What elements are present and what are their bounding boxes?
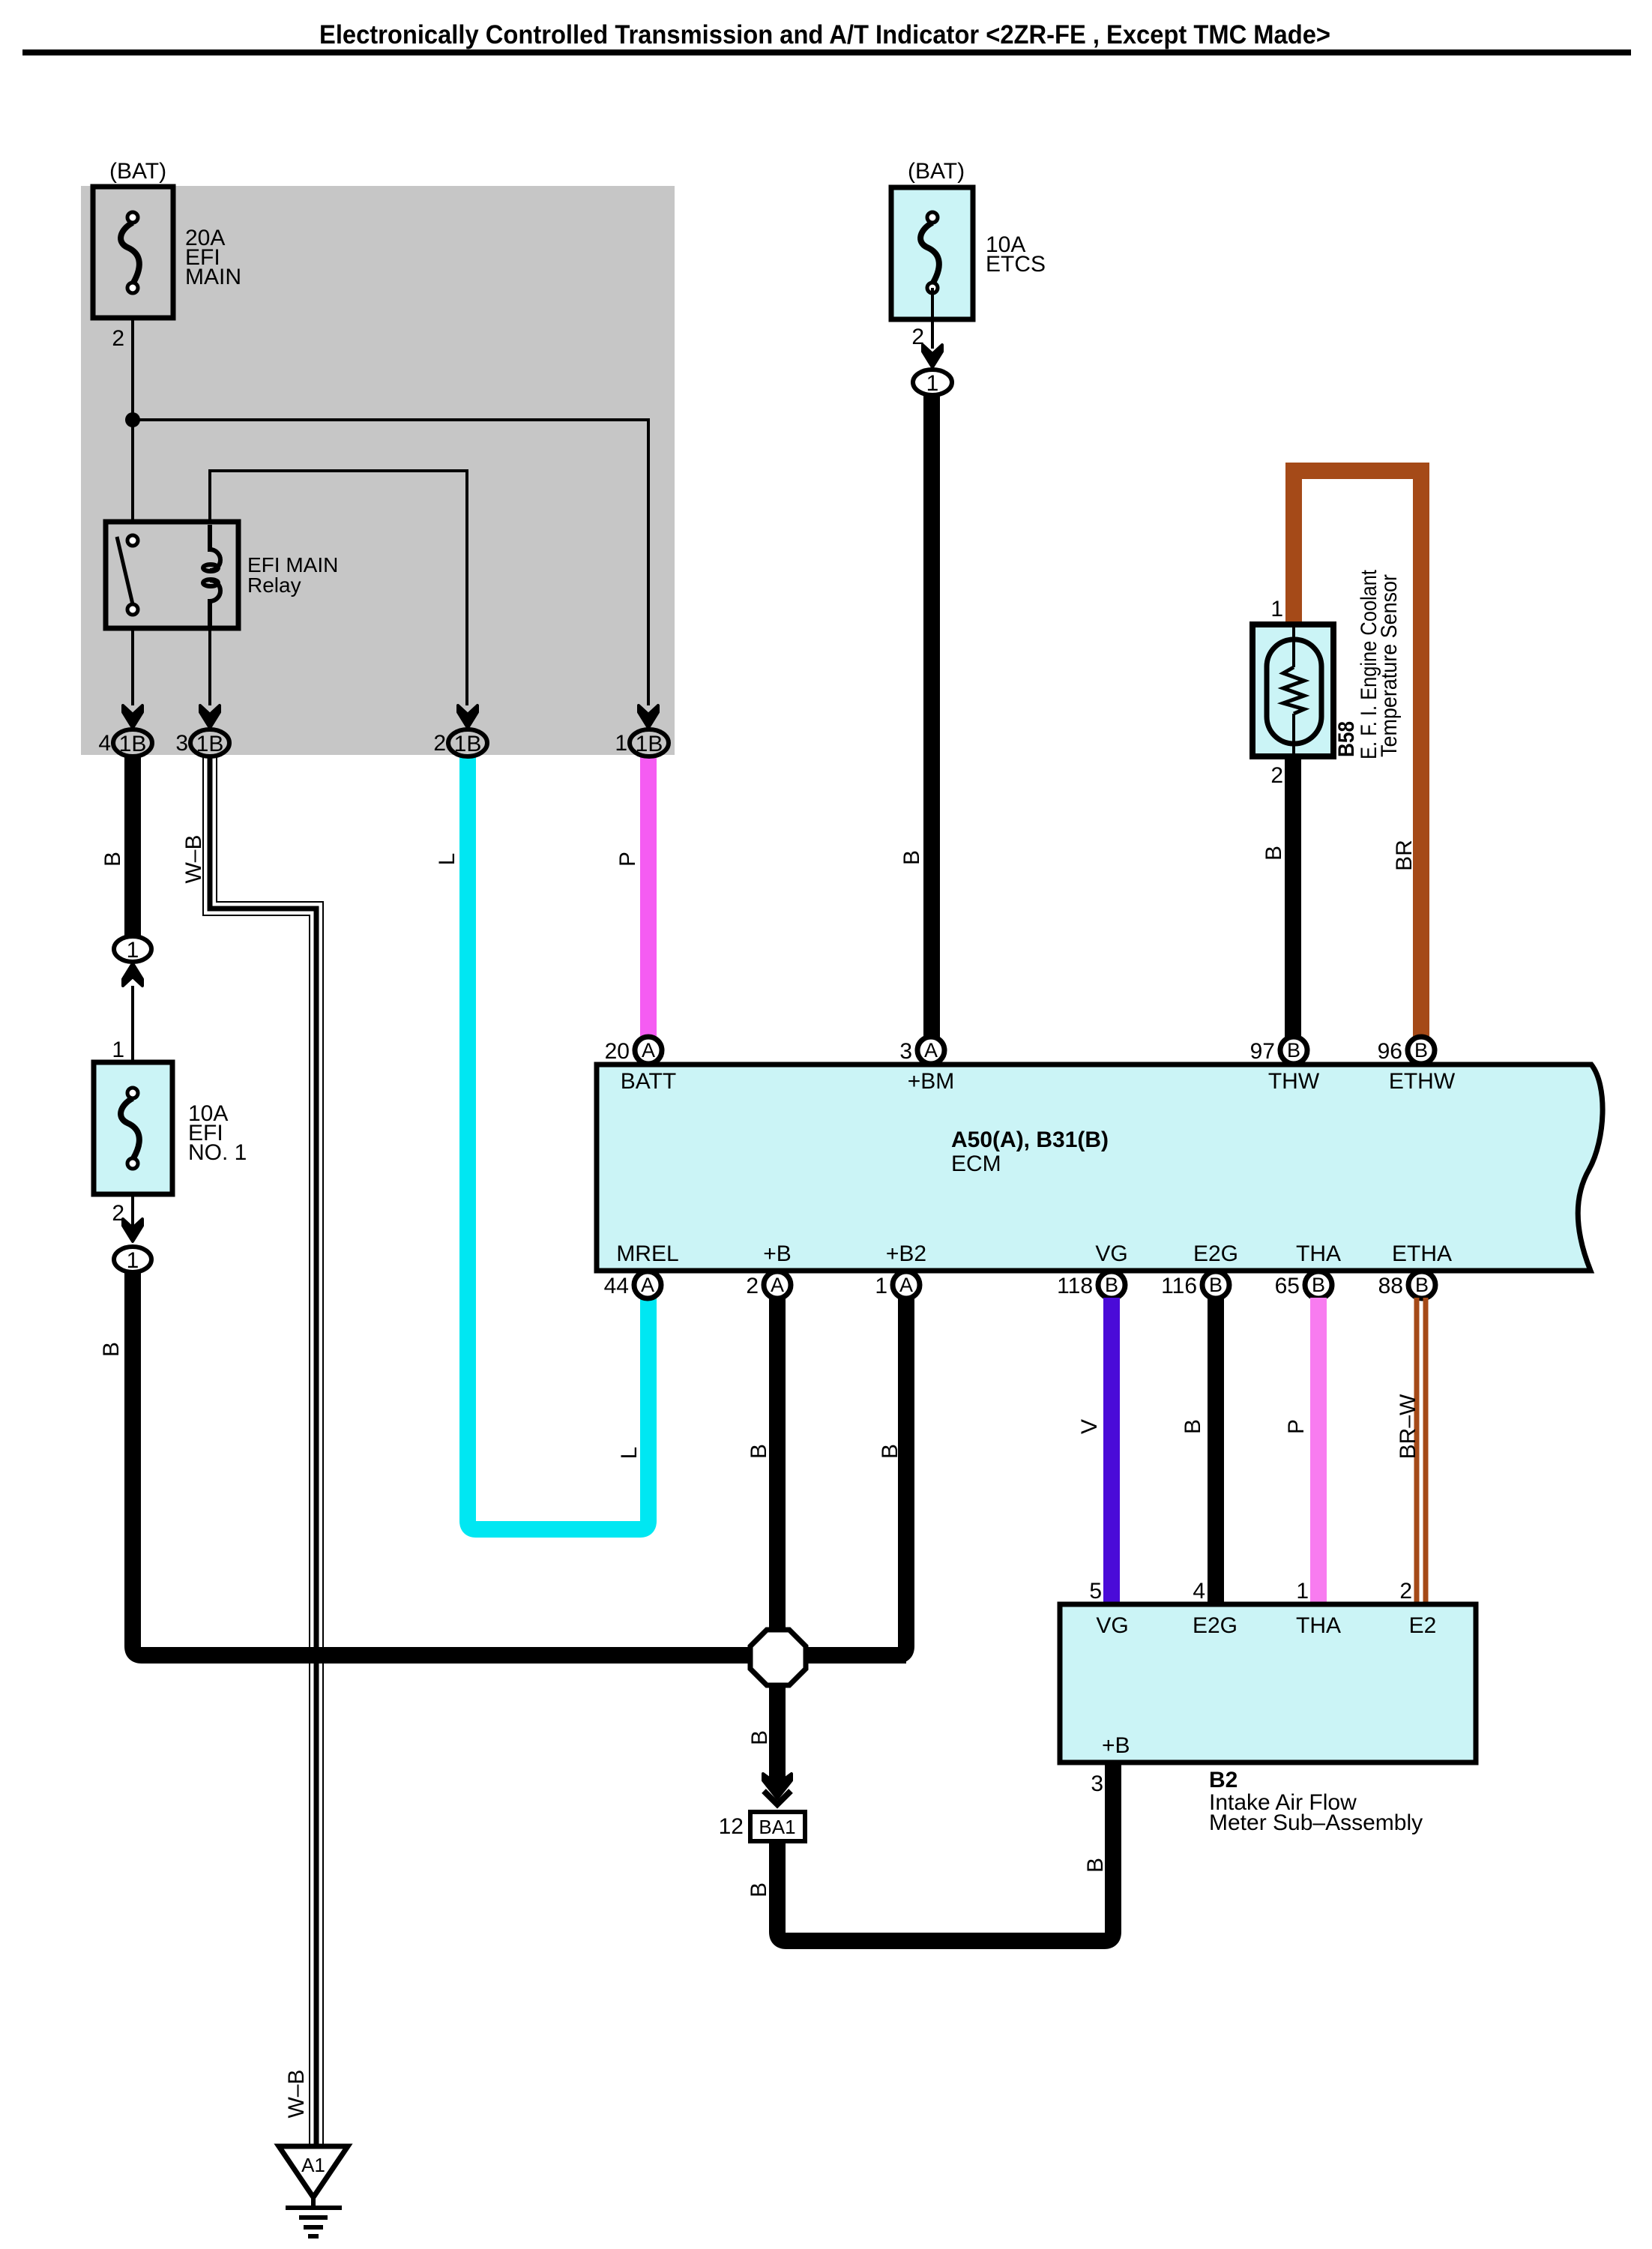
svg-text:V: V [1077,1419,1102,1434]
wire B from lower oval to bottom run [133,1271,906,1655]
svg-text:97: 97 [1250,1039,1275,1064]
wire: fuse EFI MAIN pin2 to junction to relay switch [131,318,134,538]
connector oval 1B pin1 [630,729,669,756]
svg-text:2: 2 [1399,1579,1412,1604]
svg-text:3: 3 [175,731,188,756]
svg-text:B: B [1083,1858,1108,1873]
svg-text:+B2: +B2 [886,1241,926,1266]
svg-text:L: L [435,853,459,866]
ECM bottom pin 65 B THA [1305,1271,1332,1298]
wire ETCS fuse to oval [931,288,934,349]
svg-text:THW: THW [1268,1069,1320,1094]
svg-text:+B: +B [1102,1733,1130,1758]
connector oval 1B pin2 [448,729,487,756]
svg-text:88: 88 [1378,1274,1403,1298]
svg-text:BR–W: BR–W [1396,1394,1420,1459]
ground A1 [279,2146,348,2236]
wire V from ECM VG to MAF [1103,1298,1120,1604]
svg-text:1B: 1B [454,732,482,756]
wire B octagon down to BA1 [769,1685,786,1786]
svg-text:44: 44 [604,1274,629,1298]
svg-text:65: 65 [1275,1274,1300,1298]
ECM top pin 20 A BATT [635,1037,662,1064]
connector oval 1 above EFI NO.1 [114,936,151,963]
switch lever [117,537,133,604]
svg-text:A: A [771,1274,784,1296]
svg-text:VG: VG [1095,1241,1127,1266]
ECM bottom pin 2 A +B [764,1271,791,1298]
svg-text:A: A [641,1274,654,1296]
svg-text:B: B [100,852,125,867]
svg-text:1: 1 [1270,597,1283,621]
svg-text:Relay: Relay [247,573,301,597]
gray harness area [81,186,675,755]
title rule [22,49,1631,55]
svg-text:BR: BR [1392,840,1417,871]
ECM top pin 3 A +BM [917,1037,944,1064]
svg-text:4: 4 [1193,1579,1205,1604]
svg-text:B: B [1209,1274,1223,1296]
wire B from ECM E2G to MAF [1208,1298,1224,1604]
ECM top pin 96 B ETHW [1408,1037,1435,1064]
svg-text:A: A [899,1274,913,1296]
ECM bottom pin 44 A MREL [634,1271,661,1298]
wire fuse to lower oval [131,1194,134,1229]
svg-text:Electronically Controlled Tran: Electronically Controlled Transmission a… [319,20,1330,49]
connector arrow into 1B pin4 [123,705,142,728]
wire B from ECM +B2 down and left to octagon [802,1298,906,1655]
wire W-B from 1B-3 to ground A1 [210,753,316,2149]
svg-text:ETHA: ETHA [1392,1241,1452,1266]
svg-text:BATT: BATT [621,1069,676,1094]
ECM bottom pin 88 B ETHA [1408,1271,1435,1298]
svg-text:116: 116 [1161,1274,1197,1298]
svg-text:2: 2 [433,731,446,756]
svg-text:B: B [99,1342,124,1357]
wire BR-W from ECM ETHA to MAF E2 [1417,1298,1426,1604]
wire P magenta: 1B-1 down to ECM BATT [640,750,657,1039]
svg-text:Meter Sub–Assembly: Meter Sub–Assembly [1209,1810,1423,1835]
BA1 junction box [750,1812,805,1841]
connector oval 1B pin4 [113,729,152,756]
wire B ETCS to ECM +BM [923,394,940,1039]
connector arrow into 1B pin1 [639,705,658,728]
svg-text:20: 20 [605,1039,630,1064]
svg-text:MAIN: MAIN [185,265,241,289]
wire L cyan: 1B-2 down, across, up to ECM MREL [468,750,648,1529]
svg-text:1: 1 [875,1274,887,1298]
coolant temp sensor brown loop wire BR [1294,471,1421,1039]
svg-text:A: A [924,1039,938,1062]
svg-text:2: 2 [112,326,124,351]
svg-text:ECM: ECM [951,1151,1001,1176]
svg-text:B: B [747,1444,771,1459]
wire B from BA1 down, across, up to MAF +B [777,1765,1113,1941]
svg-text:B: B [1414,1039,1428,1062]
svg-text:P: P [1284,1419,1309,1434]
svg-text:1: 1 [926,371,939,396]
svg-text:1B: 1B [196,732,224,756]
wire B from ECM +B down to octagon node [769,1298,786,1642]
wire: relay coil bottom to 1B pin3 [208,601,211,705]
svg-text:12: 12 [719,1814,744,1839]
svg-text:(BAT): (BAT) [109,159,166,184]
MAF meter B2 Intake Air Flow Meter Sub-Assembly [1060,1604,1476,1762]
svg-text:(BAT): (BAT) [908,159,965,184]
svg-text:B: B [1415,1274,1429,1296]
wire: relay switch bottom to 1B pin4 [131,615,134,705]
svg-text:B: B [747,1882,771,1897]
wire oval to fuse EFI NO.1 [131,986,134,1062]
node octagon junction [750,1630,806,1685]
svg-text:3: 3 [1091,1771,1103,1796]
svg-text:A50(A), B31(B): A50(A), B31(B) [951,1127,1109,1152]
wire P from ECM THA to MAF [1310,1298,1327,1604]
svg-text:VG: VG [1096,1613,1128,1638]
svg-text:E2: E2 [1409,1613,1437,1638]
svg-text:E2G: E2G [1193,1613,1238,1638]
svg-text:1: 1 [1296,1579,1309,1604]
svg-text:B: B [1287,1039,1300,1062]
connector arrow into 1B pin3 [200,705,220,728]
ECM bottom pin 116 B E2G [1202,1271,1229,1298]
wire: relay coil top loop to 1B pin2 drop [210,471,467,705]
fuse 20A EFI MAIN [93,187,173,318]
ECM bottom pin 1 A +B2 [893,1271,920,1298]
connector arrow into 1B pin2 [458,705,477,728]
svg-text:A: A [642,1039,655,1062]
up arrow below oval [123,963,142,986]
connector oval 1 below EFI NO.1 [114,1247,151,1273]
svg-text:4: 4 [98,731,111,756]
node: junction dot [125,412,140,427]
down arrow into lower oval [123,1219,142,1241]
connector oval 1B pin3 [190,729,229,756]
svg-text:THA: THA [1296,1241,1341,1266]
svg-text:P: P [615,852,640,867]
svg-text:2: 2 [746,1274,759,1298]
svg-text:B: B [1105,1274,1118,1296]
svg-text:W–B: W–B [181,834,206,883]
svg-text:ETHW: ETHW [1389,1069,1456,1094]
down arrow ETCS [923,345,942,367]
svg-text:B: B [899,850,924,865]
svg-text:5: 5 [1089,1579,1102,1604]
BA1 double chevron arrow [763,1774,792,1798]
svg-text:1: 1 [127,1248,139,1273]
svg-text:B: B [1312,1274,1325,1296]
svg-text:96: 96 [1378,1039,1402,1064]
svg-text:+B: +B [763,1241,792,1266]
connector oval 1 ETCS [913,370,952,396]
svg-text:3: 3 [899,1039,912,1064]
svg-text:B: B [1261,846,1286,861]
sensor B58 E.F.I. Engine Coolant Temperature Sensor [1252,624,1333,756]
svg-text:2: 2 [1270,763,1283,788]
wire B from 1B-4 to connector oval [124,750,141,937]
svg-text:B: B [878,1444,902,1459]
relay EFI MAIN Relay [106,522,238,628]
svg-text:E2G: E2G [1193,1241,1238,1266]
svg-text:B58: B58 [1334,721,1359,757]
ECM top pin 97 B THW [1280,1037,1307,1064]
svg-text:1B: 1B [119,732,147,756]
svg-text:THA: THA [1296,1613,1341,1638]
svg-text:NO. 1: NO. 1 [188,1140,247,1165]
coil [210,525,220,570]
svg-text:A1: A1 [301,2154,325,2176]
svg-text:1: 1 [127,938,139,963]
ECM bottom pin 118 B VG [1098,1271,1125,1298]
svg-text:BA1: BA1 [759,1816,795,1838]
svg-text:MREL: MREL [616,1241,678,1266]
svg-text:118: 118 [1057,1274,1093,1298]
ECM block A50(A) B31(B) [597,1065,1603,1271]
svg-text:ETCS: ETCS [986,252,1046,277]
svg-text:1: 1 [112,1038,124,1062]
svg-text:W–B: W–B [284,2069,309,2118]
fuse 10A EFI NO.1 [94,1062,172,1194]
svg-text:L: L [617,1447,642,1460]
wire B sensor pin2 to ECM THW [1285,754,1301,1039]
svg-text:1: 1 [615,731,627,756]
svg-text:B: B [747,1730,772,1745]
wire: junction right to 1B pin1 drop [133,420,648,705]
svg-text:1B: 1B [636,732,663,756]
svg-text:B: B [1181,1419,1205,1434]
svg-text:+BM: +BM [908,1069,955,1094]
svg-text:B2: B2 [1209,1768,1238,1792]
svg-text:Temperature Sensor: Temperature Sensor [1377,574,1402,757]
